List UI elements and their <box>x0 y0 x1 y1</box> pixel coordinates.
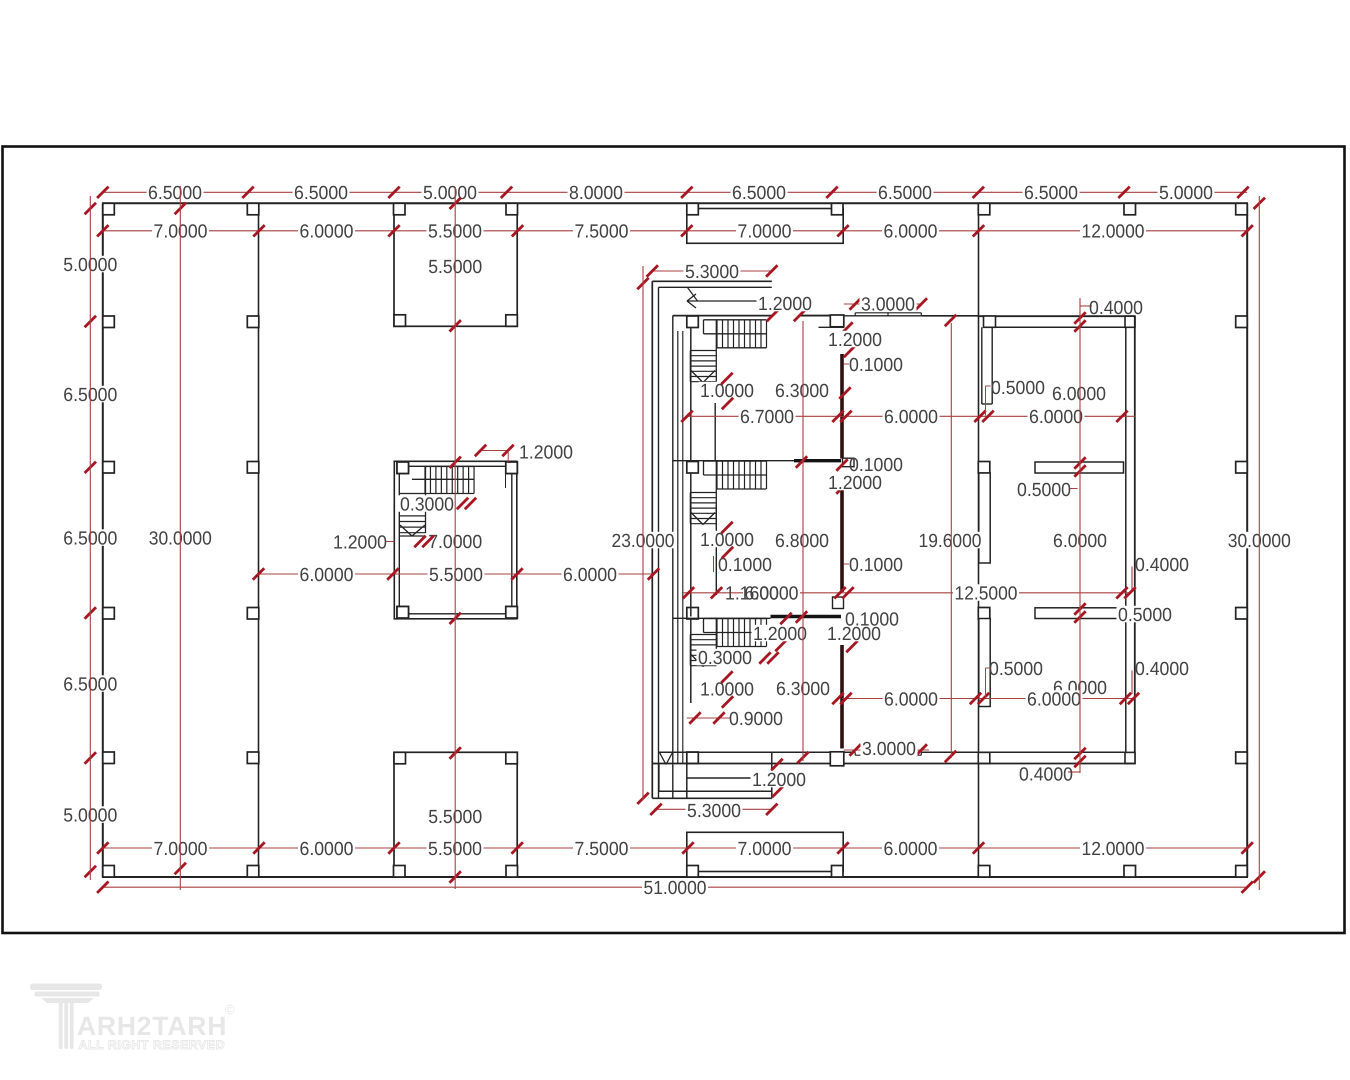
svg-text:6.0000: 6.0000 <box>1027 689 1081 710</box>
svg-text:6.5000: 6.5000 <box>294 183 348 204</box>
svg-text:6.0000: 6.0000 <box>884 839 938 860</box>
svg-text:6.0000: 6.0000 <box>884 407 938 428</box>
svg-text:6.0000: 6.0000 <box>300 839 354 860</box>
svg-text:1.2000: 1.2000 <box>752 770 806 791</box>
svg-text:7.0000: 7.0000 <box>738 222 792 243</box>
svg-text:1.2000: 1.2000 <box>333 532 387 553</box>
svg-text:6.7000: 6.7000 <box>740 407 794 428</box>
svg-text:3.0000: 3.0000 <box>862 739 916 760</box>
svg-text:12.0000: 12.0000 <box>1082 222 1145 243</box>
svg-text:0.5000: 0.5000 <box>991 378 1045 399</box>
svg-text:0.3000: 0.3000 <box>698 648 752 669</box>
svg-text:1.2000: 1.2000 <box>828 473 882 494</box>
svg-text:0.5000: 0.5000 <box>989 659 1043 680</box>
svg-text:12.5000: 12.5000 <box>955 583 1018 604</box>
svg-text:7.5000: 7.5000 <box>575 222 629 243</box>
svg-text:0.4000: 0.4000 <box>1135 659 1189 680</box>
svg-text:1.1600: 1.1600 <box>725 583 779 604</box>
svg-text:5.0000: 5.0000 <box>423 183 477 204</box>
svg-text:5.3000: 5.3000 <box>685 262 739 283</box>
svg-text:0.9000: 0.9000 <box>729 709 783 730</box>
svg-text:0.1000: 0.1000 <box>849 555 903 576</box>
svg-text:6.0000: 6.0000 <box>884 222 938 243</box>
svg-text:1.0000: 1.0000 <box>700 530 754 551</box>
svg-text:6.0000: 6.0000 <box>563 565 617 586</box>
svg-text:1.2000: 1.2000 <box>758 294 812 315</box>
svg-text:6.5000: 6.5000 <box>1024 183 1078 204</box>
svg-text:8.0000: 8.0000 <box>569 183 623 204</box>
svg-text:1.2000: 1.2000 <box>828 330 882 351</box>
svg-text:6.5000: 6.5000 <box>878 183 932 204</box>
svg-text:0.4000: 0.4000 <box>1135 555 1189 576</box>
svg-text:0.5000: 0.5000 <box>1017 480 1071 501</box>
svg-text:6.0000: 6.0000 <box>300 565 354 586</box>
svg-text:6.0000: 6.0000 <box>1029 407 1083 428</box>
svg-text:1.2000: 1.2000 <box>519 442 573 463</box>
svg-text:6.0000: 6.0000 <box>300 222 354 243</box>
svg-text:1.0000: 1.0000 <box>700 381 754 402</box>
svg-text:0.3000: 0.3000 <box>400 494 454 515</box>
svg-text:7.0000: 7.0000 <box>738 839 792 860</box>
svg-text:1.0000: 1.0000 <box>700 679 754 700</box>
svg-text:0.1000: 0.1000 <box>845 609 899 630</box>
svg-text:ALL RIGHT RESERVED: ALL RIGHT RESERVED <box>79 1038 226 1052</box>
svg-text:1.2000: 1.2000 <box>753 624 807 645</box>
svg-text:6.0000: 6.0000 <box>884 689 938 710</box>
svg-text:5.0000: 5.0000 <box>1159 183 1213 204</box>
svg-text:0.4000: 0.4000 <box>1019 764 1073 785</box>
svg-text:0.1000: 0.1000 <box>849 355 903 376</box>
svg-text:6.0000: 6.0000 <box>1052 384 1106 405</box>
svg-text:5.3000: 5.3000 <box>687 801 741 822</box>
svg-text:19.6000: 19.6000 <box>919 531 982 552</box>
svg-text:6.8000: 6.8000 <box>775 531 829 552</box>
svg-text:3.0000: 3.0000 <box>861 294 915 315</box>
svg-text:0.5000: 0.5000 <box>1118 605 1172 626</box>
svg-text:0.4000: 0.4000 <box>1089 298 1143 319</box>
svg-text:©: © <box>225 1002 235 1017</box>
svg-text:12.0000: 12.0000 <box>1082 839 1145 860</box>
svg-text:0.1000: 0.1000 <box>849 455 903 476</box>
svg-text:6.5000: 6.5000 <box>732 183 786 204</box>
svg-text:0.1000: 0.1000 <box>718 555 772 576</box>
svg-text:6.3000: 6.3000 <box>775 381 829 402</box>
svg-text:7.5000: 7.5000 <box>575 839 629 860</box>
svg-text:6.5000: 6.5000 <box>148 183 202 204</box>
svg-text:5.5000: 5.5000 <box>429 565 483 586</box>
svg-text:ARH2TARH: ARH2TARH <box>77 1011 227 1041</box>
svg-text:51.0000: 51.0000 <box>644 878 707 899</box>
